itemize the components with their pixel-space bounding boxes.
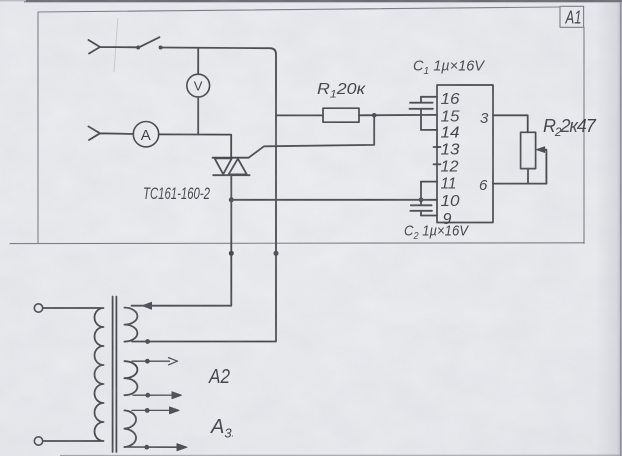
transformer secondary winding 3 xyxy=(124,410,136,447)
arrowhead winding2 bottom xyxy=(172,392,182,399)
input terminal bottom xyxy=(89,127,134,141)
node dot triac-gate line xyxy=(229,197,234,202)
tap wire winding2 bottom xyxy=(133,394,174,396)
node dot winding3 bottom xyxy=(144,445,149,450)
transformer primary terminal top xyxy=(34,304,42,312)
resistor R1 xyxy=(323,108,359,122)
pin 9 lead xyxy=(421,215,437,217)
switch pivot dot xyxy=(136,46,140,50)
node dot C2 junction xyxy=(419,197,424,202)
IC U1 body xyxy=(437,85,493,223)
arrowhead winding3 bottom xyxy=(177,444,187,451)
node dot winding2 top xyxy=(145,359,150,364)
paper crease mark xyxy=(114,18,118,72)
transformer core xyxy=(113,297,117,453)
pin 12 tick xyxy=(434,163,441,165)
triac VS top bar xyxy=(213,157,249,159)
node dot R1 output xyxy=(372,113,377,118)
transformer secondary winding 2 xyxy=(124,361,137,395)
input terminal top xyxy=(89,40,139,54)
wire terminal bottom to winding xyxy=(43,440,101,442)
scan edge right xyxy=(596,0,622,456)
wire pin 10 long line to triac node xyxy=(231,199,437,201)
tap arrowhead on wire xyxy=(143,302,152,309)
drawing frame border xyxy=(10,7,584,244)
ammeter A xyxy=(133,122,158,147)
wire top rail to right vertical xyxy=(132,48,276,342)
wire triac gate xyxy=(249,115,375,157)
switch contact dot xyxy=(159,46,163,50)
node dot winding2 bottom xyxy=(145,393,150,398)
capacitor C1 xyxy=(409,97,433,130)
pin 16 lead xyxy=(421,96,437,98)
transformer secondary winding 1 xyxy=(124,308,137,342)
scan edge bottom xyxy=(60,454,622,456)
potentiometer R2 body xyxy=(521,132,536,168)
wire ammeter to triac anode xyxy=(159,134,232,157)
R2 bottom lead xyxy=(527,169,529,184)
capacitor C2 xyxy=(410,182,432,216)
scan edge top xyxy=(24,0,622,2)
node dot on vertical x276 xyxy=(274,251,279,256)
triac VS bottom bar xyxy=(213,174,249,176)
pin 13 tick xyxy=(434,146,441,148)
wire pin 6 xyxy=(493,183,546,185)
R2 wiper arrow xyxy=(536,147,545,153)
wire R1 to pin 15 xyxy=(359,114,437,116)
switch blade xyxy=(139,37,160,47)
wire terminal top to winding xyxy=(43,307,101,309)
node dot winding3 top xyxy=(145,408,150,413)
R2 wiper wire xyxy=(545,150,546,184)
wire voltmeter lower lead xyxy=(197,97,199,134)
node dot winding1 bottom xyxy=(145,339,150,344)
transformer primary winding xyxy=(95,308,104,441)
pin 14 lead xyxy=(421,129,437,131)
wire into R1 xyxy=(276,114,323,116)
triac triangle right xyxy=(229,159,247,175)
tap wire winding3 top xyxy=(132,409,171,411)
voltmeter V xyxy=(187,74,210,97)
wire voltmeter riser xyxy=(197,48,199,74)
wire pin 3 to R2 top xyxy=(493,115,528,132)
arrowhead winding3 top xyxy=(170,407,180,414)
triac triangle left xyxy=(215,158,232,174)
tap wire winding2 top xyxy=(132,358,178,365)
tap wire winding3 bottom xyxy=(124,446,178,448)
pin 11 lead xyxy=(421,181,437,183)
node dot on vertical x231 xyxy=(229,251,234,256)
zone label box A1 xyxy=(560,6,584,27)
wire triac cathode down to transformer tap xyxy=(132,175,232,306)
transformer primary terminal bottom xyxy=(34,437,42,445)
